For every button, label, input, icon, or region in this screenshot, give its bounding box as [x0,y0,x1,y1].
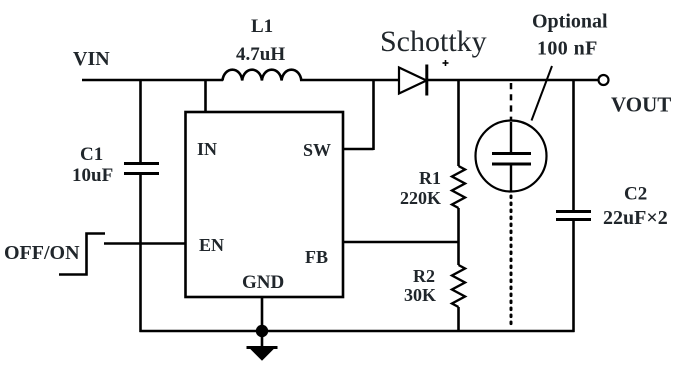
wire R1 to FB node [457,208,460,265]
optional capacitor circle [476,121,547,192]
svg-text:100 nF: 100 nF [537,38,598,60]
op-amp U1 IC box [186,112,344,297]
wire R1 branch top [457,79,460,166]
capacitor inside circle [492,122,531,191]
svg-text:OFF/ON: OFF/ON [4,242,80,264]
svg-text:IN: IN [197,139,217,159]
svg-text:Optional: Optional [532,11,608,33]
svg-text:22uF×2: 22uF×2 [603,207,668,229]
resistor R2 [452,265,465,307]
junction dot GND node [256,325,268,337]
dashed wire optional cap top [510,83,513,121]
svg-text:GND: GND [242,272,284,293]
svg-text:4.7uH: 4.7uH [236,44,285,65]
svg-text:30K: 30K [404,285,436,305]
resistor R1 [452,166,465,208]
wire SW pin [343,79,374,150]
svg-text:R1: R1 [419,168,441,188]
svg-text:VIN: VIN [73,48,110,70]
wire IN branch [204,79,207,113]
capacitor C1 [124,164,159,174]
wire FB [343,241,460,244]
wire diode to VOUT terminal [427,79,598,82]
capacitor C2 [556,212,591,220]
svg-text:EN: EN [199,235,224,255]
svg-text:FB: FB [305,247,328,267]
ground symbol [247,331,278,360]
plus mark [443,60,449,66]
wire C2 branch lower [572,220,575,332]
svg-text:SW: SW [303,140,331,160]
svg-text:C1: C1 [80,144,103,165]
svg-text:L1: L1 [251,16,273,37]
svg-text:220K: 220K [400,188,441,208]
svg-text:Schottky: Schottky [380,25,487,58]
svg-text:VOUT: VOUT [611,93,671,117]
wire C1 branch vertical lower [139,174,142,332]
wire C1 branch vertical upper [139,79,142,163]
svg-text:C2: C2 [624,184,647,205]
pointer line from 100nF label to optional cap [532,66,553,121]
diode Schottky [399,65,427,96]
dotted wire optional cap bottom [510,196,513,329]
step waveform symbol [59,234,105,275]
svg-text:R2: R2 [413,266,435,286]
wire inductor to diode [300,79,399,82]
svg-text:10uF: 10uF [72,165,113,186]
wire VIN to inductor [82,79,223,82]
wire EN [104,242,186,245]
terminal VOUT circle [599,75,609,85]
wire ground rail [140,330,575,333]
inductor L1 [223,70,302,81]
wire R2 to ground rail [457,307,460,332]
wire C2 branch upper [572,79,575,210]
wire GND pin [261,297,264,331]
